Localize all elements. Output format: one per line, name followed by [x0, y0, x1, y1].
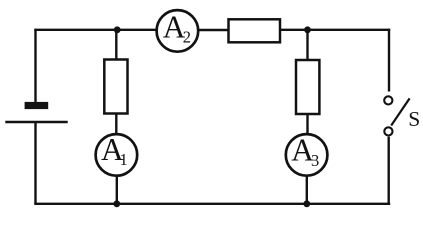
- wire top left segment: [34, 29, 156, 31]
- wire bottom: [34, 203, 390, 205]
- wire branch 2 lower: [306, 175, 308, 204]
- wire branch 1 lower: [116, 175, 118, 204]
- node junction dot bottom of branch 1: [113, 200, 120, 207]
- wire right vertical below switch: [388, 137, 390, 205]
- wire right vertical to switch: [388, 29, 390, 92]
- battery cell: thick plate: [25, 102, 49, 109]
- wire top right segment: [280, 29, 390, 31]
- wire left vertical top segment: [34, 29, 36, 103]
- node junction dot bottom of branch 2: [303, 200, 310, 207]
- resistor R1 vertical: [104, 60, 127, 114]
- wire branch 1 middle: [115, 113, 117, 135]
- ammeter A1 circle: [96, 134, 138, 176]
- svg-text:1: 1: [119, 150, 127, 169]
- ammeter A2 circle: [157, 10, 199, 52]
- svg-text:2: 2: [183, 27, 191, 46]
- switch S bottom contact circle: [384, 127, 392, 135]
- svg-text:3: 3: [311, 151, 319, 170]
- node junction dot top of branch 1: [114, 26, 121, 33]
- resistor R-top horizontal: [229, 19, 281, 42]
- battery cell: thin long plate: [5, 121, 67, 124]
- wire between A2 and resistor: [198, 29, 230, 31]
- switch S top contact circle: [384, 96, 392, 104]
- resistor R2 vertical: [296, 60, 319, 114]
- wire branch 2 middle: [306, 114, 308, 136]
- ammeter A3 circle: [286, 134, 328, 176]
- switch S blade: [391, 98, 409, 125]
- node junction dot top of branch 2: [304, 26, 311, 33]
- wire branch 1 upper: [115, 30, 117, 61]
- wire branch 2 upper: [306, 30, 308, 61]
- svg-text:S: S: [408, 107, 420, 131]
- wire left vertical bottom segment: [34, 122, 36, 204]
